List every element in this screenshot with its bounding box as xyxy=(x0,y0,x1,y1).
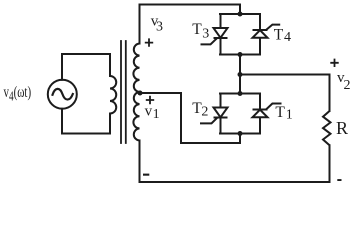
svg-text:T: T xyxy=(275,104,285,121)
svg-text:T: T xyxy=(274,26,284,43)
svg-text:4: 4 xyxy=(284,30,291,45)
svg-text:T: T xyxy=(192,21,202,38)
svg-text:2: 2 xyxy=(201,104,208,119)
svg-text:R: R xyxy=(336,118,348,138)
svg-text:2: 2 xyxy=(344,78,351,93)
svg-text:3: 3 xyxy=(202,27,209,42)
svg-text:1: 1 xyxy=(153,107,160,122)
svg-text:3: 3 xyxy=(156,19,163,34)
svg-text:v: v xyxy=(145,103,153,119)
svg-text:1: 1 xyxy=(286,108,293,123)
svg-text:v4(ωt): v4(ωt) xyxy=(4,84,32,103)
